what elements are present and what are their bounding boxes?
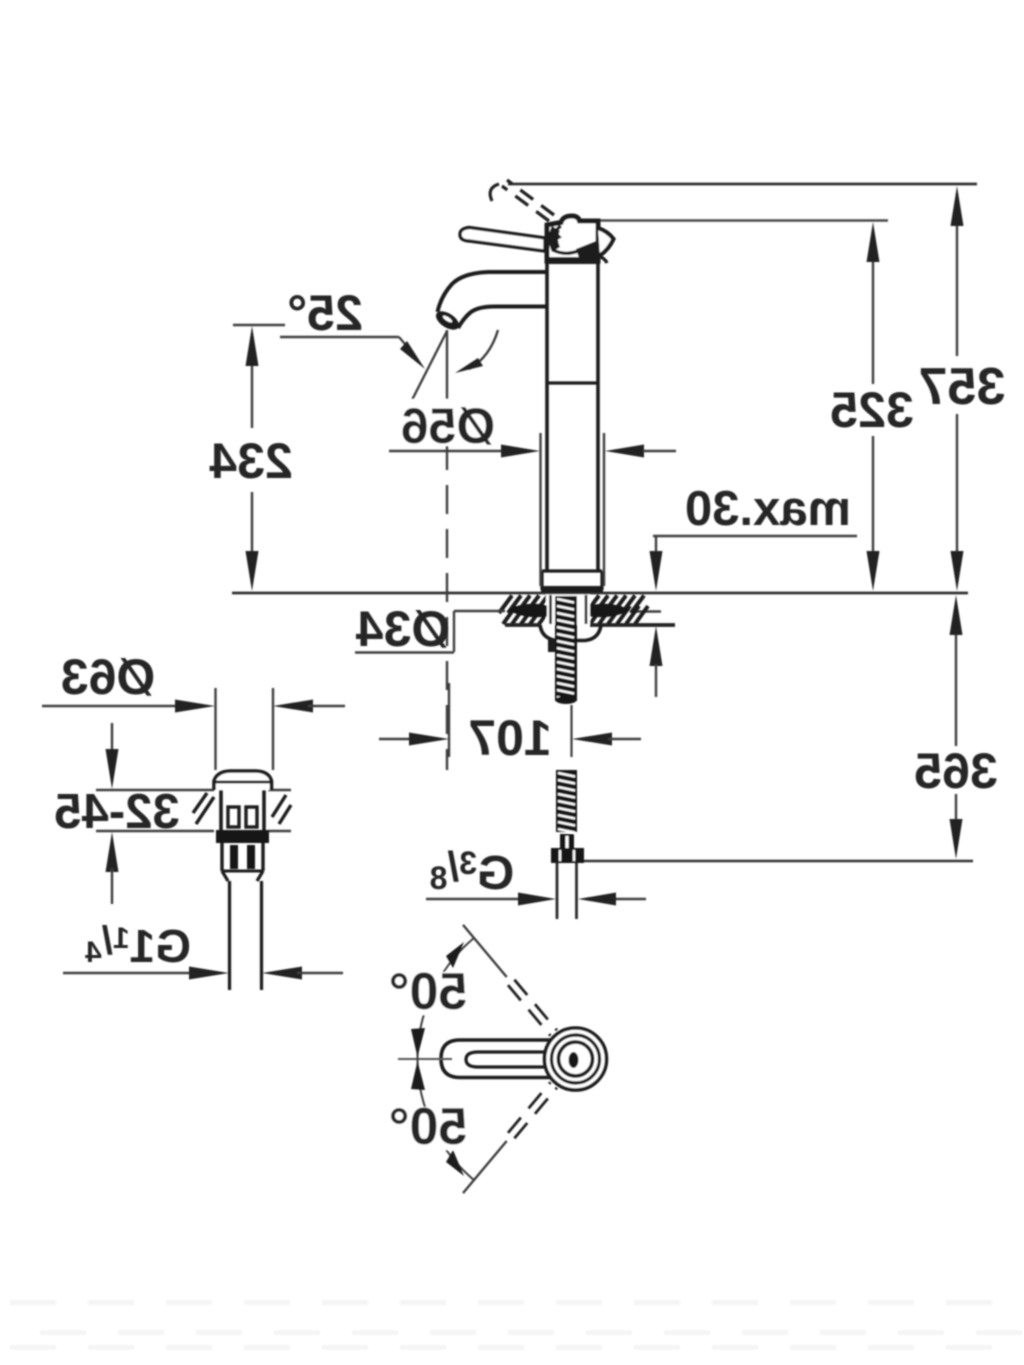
deck cross-section lines — [96, 789, 214, 792]
dimension 325 — [872, 232, 874, 384]
svg-text:107: 107 — [468, 710, 551, 766]
svg-text:365: 365 — [914, 743, 997, 799]
counter bottom edge — [505, 623, 541, 627]
dim 32-45 vertical — [111, 723, 113, 754]
top reference line (357) — [508, 183, 977, 186]
dim 107 — [379, 738, 414, 740]
drain neck — [219, 790, 223, 831]
nut step — [548, 639, 560, 652]
dim O56 — [539, 433, 541, 586]
dimension 234 — [233, 324, 285, 327]
hole gap whiteout — [546, 595, 590, 625]
svg-text:234: 234 — [209, 433, 293, 489]
seal right — [590, 604, 630, 617]
spout — [438, 272, 548, 312]
faucet body column — [545, 262, 549, 571]
dimension 365 — [955, 605, 957, 746]
seal left — [508, 604, 547, 617]
drain locknut — [216, 830, 269, 843]
svg-text:32-45: 32-45 — [54, 785, 179, 839]
svg-text:G3/8: G3/8 — [430, 843, 515, 900]
50 deg rays — [463, 925, 507, 977]
svg-text:50°: 50° — [389, 963, 468, 1021]
svg-text:325: 325 — [830, 382, 913, 438]
handle lever rod — [460, 228, 545, 252]
svg-text:Ø34: Ø34 — [356, 601, 451, 657]
svg-text:25°: 25° — [287, 285, 363, 341]
lever top view — [441, 1040, 570, 1078]
washer — [540, 625, 601, 641]
svg-text:50°: 50° — [389, 1098, 468, 1156]
spout tip extension line dashed — [446, 397, 448, 770]
arc arrowheads at centerline — [411, 1028, 425, 1057]
50 deg labels — [385, 972, 473, 1015]
handle top view circles — [545, 1028, 607, 1090]
handle hub — [547, 216, 598, 261]
body joint line — [547, 381, 598, 384]
angle legs — [446, 330, 448, 397]
svg-text:G11/4: G11/4 — [85, 919, 191, 972]
centerline — [398, 1058, 452, 1060]
svg-text:Ø63: Ø63 — [61, 649, 156, 705]
counter hatching right — [586, 596, 599, 614]
spout mouth aerator — [433, 308, 462, 334]
drain cap — [214, 771, 272, 790]
arc arrowheads at rays — [446, 942, 464, 968]
counter reference line — [232, 592, 968, 595]
faint watermark — [10, 1300, 56, 1305]
threaded stud — [555, 596, 577, 701]
hose-end reference line (365) — [581, 860, 973, 863]
hose connector nut — [551, 848, 584, 863]
flexible hose braided section — [556, 770, 577, 832]
svg-text:Ø56: Ø56 — [401, 398, 496, 454]
drain nut body — [220, 843, 223, 871]
drain tailpipe — [228, 881, 231, 990]
hose tailpiece — [556, 863, 559, 919]
rotation arc — [418, 938, 474, 1180]
dimension 357 — [956, 196, 958, 356]
lever-top reference line (325) — [596, 219, 888, 222]
drain taper — [222, 871, 228, 881]
shank hole edges — [549, 595, 552, 624]
base plate — [542, 569, 602, 572]
raised lever dashed — [502, 186, 549, 221]
svg-text:max.30: max.30 — [685, 482, 851, 536]
svg-text:357: 357 — [919, 358, 1006, 416]
deck hatch strokes — [196, 797, 214, 824]
counter hatching left — [499, 596, 512, 614]
